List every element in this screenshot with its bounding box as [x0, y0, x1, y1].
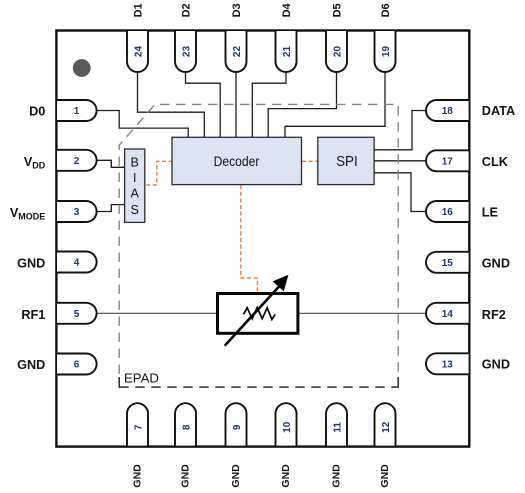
- svg-text:GND: GND: [280, 464, 292, 488]
- pin 9: [226, 403, 247, 445]
- svg-text:5: 5: [74, 309, 80, 320]
- wire pin22 to Decoder: [235, 70, 237, 140]
- wire pin19 to Decoder: [285, 70, 385, 140]
- wire SPI to pin18 DATA: [372, 111, 427, 150]
- pin 3: [57, 201, 97, 222]
- attenuator RT1 (variable resistor) box: [218, 294, 298, 334]
- svg-text:LE: LE: [482, 206, 498, 220]
- svg-text:22: 22: [232, 46, 243, 58]
- svg-text:16: 16: [442, 207, 454, 218]
- svg-text:18: 18: [442, 106, 454, 117]
- wire pin21 to Decoder: [252, 70, 286, 140]
- pin 24: [127, 31, 148, 72]
- pin 4: [57, 252, 97, 273]
- pin 1: [57, 100, 97, 121]
- EPAD bottom-left corner tick: [118, 377, 120, 388]
- pin 18: [426, 100, 469, 121]
- EPAD bottom-right corner tick: [397, 377, 399, 388]
- pin 23: [175, 31, 196, 72]
- pin 7: [127, 403, 148, 445]
- svg-text:SPI: SPI: [336, 154, 358, 170]
- pin 6: [57, 354, 97, 375]
- pin 15: [426, 252, 469, 273]
- wire D0 pin1 to Decoder: [96, 111, 188, 141]
- svg-text:D4: D4: [281, 2, 293, 17]
- orange dashed link Decoder to attenuator: [241, 185, 258, 291]
- svg-text:D6: D6: [380, 3, 392, 17]
- svg-text:A: A: [130, 187, 139, 201]
- pin 19: [375, 31, 396, 72]
- svg-text:GND: GND: [482, 256, 510, 270]
- block SPI: [318, 137, 374, 184]
- wire pin20 to Decoder: [268, 70, 336, 140]
- svg-text:21: 21: [282, 46, 293, 58]
- orange dashed link Decoder to SPI: [302, 160, 318, 162]
- svg-text:4: 4: [74, 258, 80, 269]
- pin 14: [426, 303, 469, 324]
- svg-text:13: 13: [442, 359, 454, 370]
- svg-text:12: 12: [381, 421, 392, 433]
- svg-text:GND: GND: [330, 464, 342, 488]
- EPAD dashed outline bottom edge: [119, 386, 398, 388]
- svg-text:RF1: RF1: [21, 308, 45, 322]
- pin 22: [226, 31, 247, 72]
- svg-text:10: 10: [282, 421, 293, 433]
- svg-text:EPAD: EPAD: [124, 370, 159, 385]
- svg-text:GND: GND: [179, 464, 191, 488]
- svg-text:GND: GND: [379, 464, 391, 488]
- wire attenuator to RF2 pin14: [299, 312, 428, 314]
- pin 11: [326, 403, 347, 445]
- svg-text:D5: D5: [332, 3, 344, 17]
- svg-text:DATA: DATA: [482, 104, 515, 118]
- pin 2: [57, 150, 97, 171]
- attenuator adjustment arrow: [225, 275, 289, 346]
- svg-text:CLK: CLK: [482, 155, 509, 169]
- pin 1 indicator dot: [73, 59, 91, 77]
- svg-text:19: 19: [381, 46, 392, 58]
- svg-text:S: S: [130, 203, 138, 217]
- svg-text:17: 17: [442, 156, 454, 167]
- svg-text:D3: D3: [231, 3, 243, 17]
- svg-text:D1: D1: [133, 3, 145, 17]
- pin 20: [326, 31, 347, 72]
- block Decoder U-DEC: [172, 137, 302, 184]
- svg-text:20: 20: [332, 46, 343, 58]
- orange dashed link BIAS to Decoder: [146, 161, 171, 185]
- pin 10: [276, 403, 297, 445]
- svg-text:GND: GND: [17, 358, 45, 372]
- svg-text:2: 2: [74, 156, 80, 167]
- svg-text:D0: D0: [29, 104, 45, 118]
- pin 13: [426, 353, 469, 374]
- EPAD dashed outline gray part (chamfered top-left, sides): [119, 104, 398, 374]
- attenuator resistor zigzag: [244, 308, 276, 320]
- wire pin24 to Decoder: [138, 70, 205, 140]
- wire SPI to pin16 LE: [372, 173, 427, 212]
- svg-text:24: 24: [133, 46, 144, 58]
- svg-text:Decoder: Decoder: [214, 153, 260, 169]
- block BIAS: [125, 149, 145, 222]
- svg-text:9: 9: [232, 424, 243, 430]
- svg-text:6: 6: [74, 360, 80, 371]
- wire SPI to pin17 CLK: [372, 160, 427, 162]
- svg-text:GND: GND: [482, 358, 510, 372]
- svg-text:8: 8: [181, 424, 192, 430]
- svg-text:B: B: [130, 155, 138, 169]
- wire pin2 VDD to BIAS: [96, 160, 126, 167]
- svg-text:15: 15: [442, 258, 454, 269]
- pin 17: [426, 150, 469, 171]
- svg-text:11: 11: [332, 422, 343, 433]
- wire RF1 pin5 to attenuator: [96, 312, 217, 314]
- pin 21: [276, 31, 297, 72]
- wire pin3 VMODE to BIAS: [96, 205, 126, 212]
- pin 12: [375, 403, 396, 445]
- pin 8: [175, 403, 196, 445]
- pin 5: [57, 303, 97, 324]
- wire pin23 to Decoder: [186, 70, 221, 140]
- svg-text:GND: GND: [131, 464, 143, 488]
- package outline: [56, 31, 469, 447]
- svg-text:D2: D2: [181, 3, 193, 17]
- svg-text:3: 3: [74, 207, 80, 218]
- svg-text:GND: GND: [17, 256, 45, 270]
- pin 16: [426, 201, 469, 222]
- svg-text:RF2: RF2: [482, 308, 506, 322]
- svg-text:23: 23: [181, 46, 192, 58]
- svg-text:GND: GND: [230, 464, 242, 488]
- svg-text:1: 1: [74, 106, 80, 117]
- svg-text:7: 7: [133, 424, 144, 430]
- svg-text:I: I: [133, 171, 137, 185]
- svg-text:14: 14: [442, 309, 454, 320]
